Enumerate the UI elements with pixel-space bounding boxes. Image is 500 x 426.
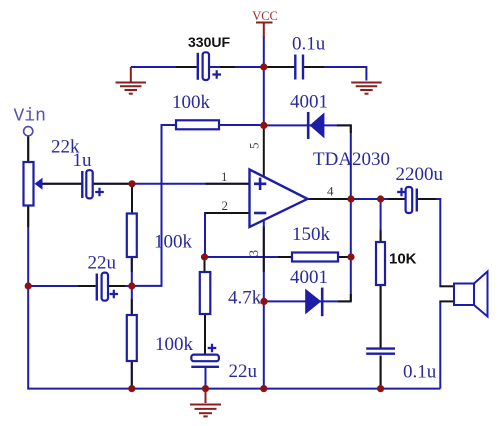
svg-text:150k: 150k	[292, 224, 331, 245]
svg-text:10K: 10K	[389, 251, 417, 268]
svg-text:4: 4	[327, 184, 334, 199]
svg-text:22u: 22u	[229, 361, 258, 382]
svg-text:VCC: VCC	[252, 9, 278, 23]
svg-text:3: 3	[246, 250, 261, 257]
svg-text:0.1u: 0.1u	[292, 34, 326, 55]
svg-text:4.7k: 4.7k	[228, 288, 262, 309]
svg-text:1: 1	[221, 169, 228, 184]
svg-text:Vin: Vin	[14, 107, 46, 127]
svg-text:100k: 100k	[172, 92, 211, 113]
svg-text:2200u: 2200u	[396, 164, 444, 185]
svg-text:TDA2030: TDA2030	[313, 149, 390, 170]
svg-text:0.1u: 0.1u	[403, 362, 437, 383]
svg-text:4001: 4001	[290, 92, 328, 113]
svg-text:100k: 100k	[155, 334, 194, 355]
svg-text:22u: 22u	[88, 253, 117, 274]
svg-text:100k: 100k	[154, 232, 193, 253]
svg-text:2: 2	[222, 198, 229, 213]
svg-text:330UF: 330UF	[188, 34, 230, 50]
svg-text:5: 5	[247, 143, 262, 150]
svg-text:4001: 4001	[290, 267, 328, 288]
svg-text:1u: 1u	[73, 150, 93, 171]
